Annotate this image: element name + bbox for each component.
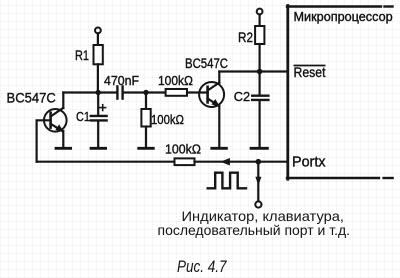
- capacitor 470nF (series on node A): [117, 86, 122, 98]
- wire: Reset line down to C2: [259, 72, 261, 96]
- wire: node A down to C1: [97, 93, 99, 116]
- ground (C2): [251, 147, 267, 150]
- wire: Portx tap down to external: [257, 162, 259, 202]
- arrowhead (down, external devices): [256, 177, 261, 185]
- svg-text:Reset: Reset: [294, 65, 326, 80]
- svg-text:Индикатор, клавиатура,: Индикатор, клавиатура,: [182, 208, 345, 224]
- microprocessor box left edge: [286, 6, 289, 180]
- svg-text:470nF: 470nF: [104, 73, 139, 88]
- wire: terminal to R1: [97, 33, 99, 45]
- junction (Portx tap): [255, 159, 261, 165]
- svg-text:Рис. 4.7: Рис. 4.7: [177, 258, 227, 276]
- pin label Reset (with overline): [294, 65, 326, 80]
- svg-text:BC547C: BC547C: [185, 56, 228, 71]
- resistor 100k (series to Q2 base): [166, 89, 187, 96]
- resistor R2: [255, 26, 264, 44]
- Reset net wire: [219, 70, 287, 72]
- svg-text:100kΩ: 100kΩ: [165, 142, 201, 157]
- wire: R1 to node A: [97, 64, 99, 92]
- svg-text:последовательный порт и т.д.: последовательный порт и т.д.: [158, 223, 351, 238]
- ground (100k): [139, 147, 154, 150]
- junction (R1/C1 on node A): [96, 90, 101, 95]
- arrowhead (signal direction, points left): [221, 158, 229, 165]
- waveform (square wave at Portx): [208, 173, 246, 189]
- resistor R1: [94, 45, 103, 64]
- svg-text:Микропроцессор: Микропроцессор: [294, 10, 393, 24]
- wire: C1 to ground: [97, 122, 99, 148]
- microprocessor box bottom edge: [287, 177, 379, 179]
- capacitor C1: [91, 116, 107, 121]
- wire: Q1 emitter down to ground: [62, 131, 64, 147]
- svg-text:R2: R2: [238, 30, 253, 45]
- wire: Q2 collector up to Reset line: [218, 72, 220, 84]
- svg-text:100kΩ: 100kΩ: [151, 113, 184, 127]
- svg-text:C1: C1: [76, 109, 90, 124]
- wire: R2 to Reset line: [259, 44, 261, 72]
- wire: 470nF to 100k resistor: [123, 91, 166, 93]
- wire: 100k to ground: [145, 127, 147, 148]
- junction (R2/C2 on Reset): [257, 69, 263, 75]
- resistor 100k (feedback, series): [175, 158, 195, 165]
- wire: 100k to Q2 base: [187, 91, 208, 93]
- plus sign (C1 polarity): [100, 105, 106, 111]
- junction (node B, 100k divider): [143, 90, 148, 95]
- wire: C2 to ground: [259, 101, 261, 147]
- svg-text:BC547C: BC547C: [7, 90, 56, 106]
- terminal (external connection): [255, 201, 261, 207]
- svg-text:100kΩ: 100kΩ: [158, 73, 193, 88]
- capacitor C2: [252, 96, 268, 100]
- microprocessor box top edge: [287, 5, 381, 7]
- node A wire: collector to 470nF left plate: [63, 91, 117, 93]
- supply terminal (R2 top): [257, 9, 263, 15]
- microprocessor box top edge dash: [385, 5, 393, 7]
- wire: feedback resistor to Portx: [195, 161, 288, 163]
- resistor 100k (vertical, to ground): [141, 109, 150, 127]
- ground (Q2 emitter): [212, 147, 227, 150]
- wire: Q1 base left + down to bottom line: [37, 120, 51, 161]
- transistor Q1: [44, 108, 67, 132]
- wire: node B down to 100k: [145, 93, 147, 110]
- bottom feedback wire (Portx net, left run): [37, 161, 175, 163]
- ground (Q1 emitter): [56, 147, 71, 150]
- svg-text:R1: R1: [75, 48, 89, 63]
- svg-text:C2: C2: [234, 89, 250, 104]
- svg-text:Portx: Portx: [292, 154, 326, 171]
- wire: terminal to R2: [259, 15, 261, 27]
- wire: Q1 collector up to node A line: [62, 93, 64, 109]
- wire: Q2 emitter down to ground: [218, 106, 220, 147]
- transistor Q2: [199, 82, 224, 107]
- supply terminal (R1 top): [95, 28, 101, 34]
- ground (C1): [91, 147, 106, 150]
- microprocessor box bottom edge dash: [384, 177, 393, 179]
